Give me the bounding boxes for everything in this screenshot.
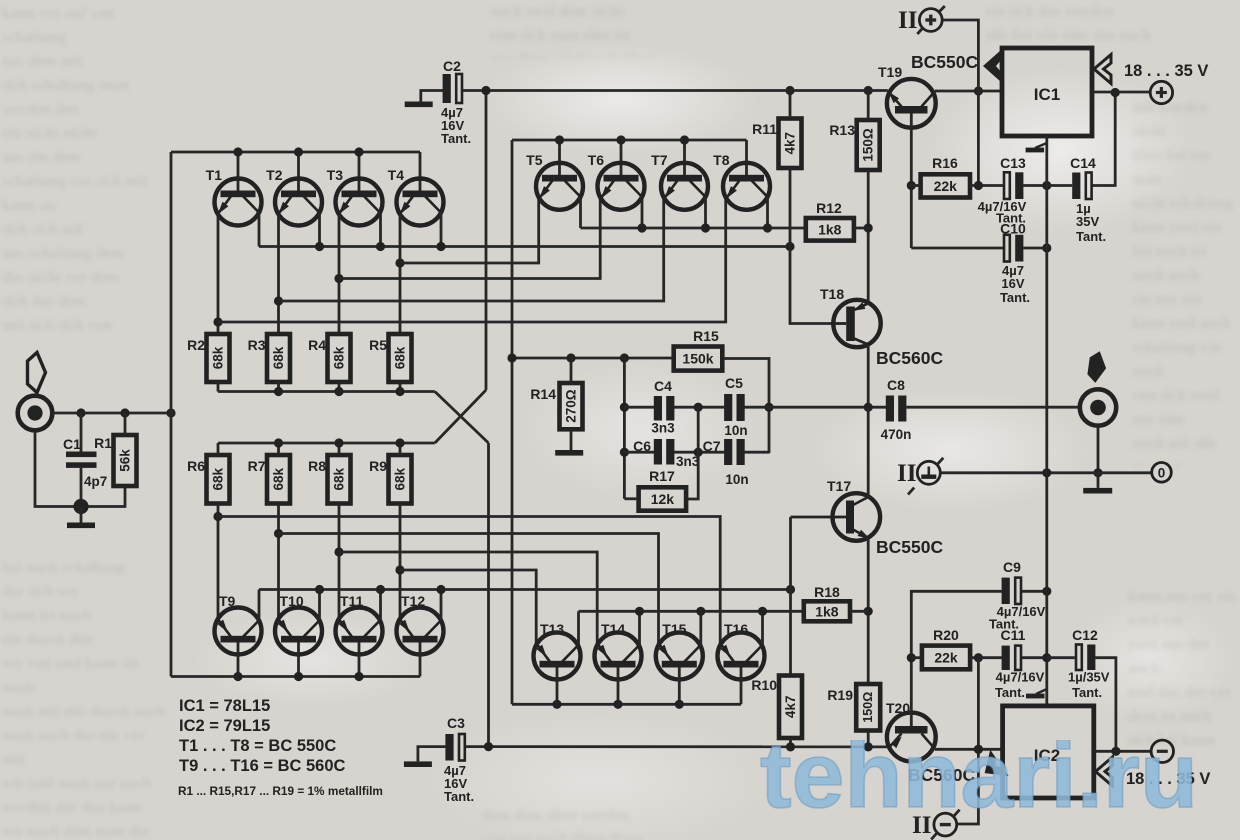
IC1 box bbox=[1002, 48, 1092, 136]
wire R20 right to C11 bbox=[970, 656, 1002, 659]
node tap T3 bbox=[334, 274, 343, 283]
node input ground bbox=[73, 499, 88, 514]
wire R9 top bbox=[399, 443, 402, 455]
svg-text:3n3: 3n3 bbox=[676, 454, 700, 469]
wire tap T11-T14 emitter bbox=[339, 552, 597, 645]
wire R2 bottom bbox=[217, 382, 220, 392]
wire tap T12-T13 emitter bbox=[400, 570, 536, 645]
capacitor C8 bbox=[886, 396, 894, 422]
node tap T1 bbox=[213, 317, 222, 326]
input RCA jack bbox=[18, 396, 53, 431]
wire tap T9-T16 emitter bbox=[218, 517, 720, 646]
ground IC2 bbox=[1036, 689, 1047, 694]
wire T7 collector bbox=[704, 197, 707, 228]
svg-text:R9: R9 bbox=[369, 458, 387, 474]
wire T5 collector bbox=[579, 197, 582, 228]
svg-text:Tant.: Tant. bbox=[1072, 685, 1102, 700]
wire tap T1-T8 emitter bbox=[218, 197, 726, 322]
wire T19 base column bbox=[910, 114, 913, 249]
node input/R1 bbox=[120, 408, 129, 417]
svg-text:35V: 35V bbox=[1076, 214, 1099, 229]
transistor T16 bbox=[718, 633, 765, 680]
wire T15 base stub bbox=[678, 668, 681, 705]
transistor T6 bbox=[598, 163, 645, 210]
wire T7 base stub bbox=[683, 140, 686, 176]
wire R6 bottom to T9 emitter bbox=[217, 504, 220, 619]
arrow IC2 output (filled) bbox=[975, 750, 1008, 787]
wire C4/C6 column bbox=[623, 358, 626, 499]
svg-text:C7: C7 bbox=[703, 438, 721, 454]
wire IC1 to + terminal bbox=[1092, 91, 1150, 94]
node +raw bbox=[1111, 88, 1120, 97]
svg-text:T17: T17 bbox=[827, 478, 851, 494]
svg-text:4p7: 4p7 bbox=[84, 474, 107, 489]
node C11/0V column bbox=[1042, 653, 1051, 662]
wire IC2 to - terminal bbox=[1094, 750, 1151, 753]
node R20/C11/II- bbox=[974, 653, 983, 662]
wire R11 top bbox=[789, 91, 792, 119]
svg-text:IC1 = 78L15: IC1 = 78L15 bbox=[179, 697, 270, 715]
svg-text:Tant.: Tant. bbox=[995, 685, 1025, 700]
svg-text:T18: T18 bbox=[820, 286, 844, 302]
wire T1-T4 collector bus to R11 bbox=[259, 245, 790, 248]
wire T16 collector bbox=[761, 611, 764, 645]
svg-text:II: II bbox=[897, 460, 916, 487]
svg-text:68k: 68k bbox=[332, 346, 347, 369]
svg-text:T13: T13 bbox=[540, 621, 564, 637]
wire jack shield to ground node bbox=[35, 431, 81, 507]
node rail/R13 bbox=[864, 86, 873, 95]
watermark tehnari.ru bbox=[758, 740, 1204, 820]
svg-text:R20: R20 bbox=[933, 627, 959, 643]
transistor T13 bbox=[534, 633, 581, 680]
wire T9-T12 collector bus to R10 column bbox=[259, 588, 791, 591]
svg-text:R15: R15 bbox=[693, 328, 719, 344]
wire T4 emitter to R5 bbox=[399, 214, 402, 334]
svg-text:T1 . . . T8 = BC 550C: T1 . . . T8 = BC 550C bbox=[179, 737, 336, 755]
svg-text:R18: R18 bbox=[814, 584, 840, 600]
wire R6 top bbox=[217, 443, 220, 455]
svg-text:BC560C: BC560C bbox=[876, 348, 943, 368]
node C4 column bbox=[620, 353, 629, 362]
svg-text:R10: R10 bbox=[751, 677, 777, 693]
node tap T2 bbox=[274, 296, 283, 305]
ground R14 bbox=[555, 450, 583, 456]
svg-text:tehnari.ru: tehnari.ru bbox=[760, 740, 1198, 820]
node C5/C7/R15/output bbox=[764, 403, 773, 412]
wire jack to 0 line bbox=[1097, 426, 1100, 473]
transistor T15 bbox=[656, 633, 703, 680]
resistor R18 bbox=[804, 584, 850, 621]
svg-text:C13: C13 bbox=[1000, 155, 1026, 171]
wire T4 collector bbox=[440, 213, 443, 247]
wire T9 base stub bbox=[237, 643, 240, 677]
transistor T9 bbox=[215, 608, 262, 655]
wire T3 base stub bbox=[358, 152, 361, 192]
wire T4 base stub bbox=[419, 152, 422, 192]
node R16/C13/II+ bbox=[974, 181, 983, 190]
wire T19 base to C10 bbox=[911, 247, 1003, 250]
wire 0 line bbox=[940, 471, 1151, 474]
svg-text:16V: 16V bbox=[1001, 276, 1024, 291]
wire base rail vertical bbox=[170, 152, 173, 677]
wire T13-T16 collector bus to R18 bbox=[579, 610, 804, 613]
svg-text:R19: R19 bbox=[827, 687, 853, 703]
wire T1-T4 base bus bbox=[171, 151, 420, 154]
svg-text:0: 0 bbox=[1158, 466, 1166, 481]
wire T2 emitter to R3 bbox=[277, 214, 280, 334]
svg-text:4k7: 4k7 bbox=[783, 132, 798, 155]
node T20c/II- bbox=[974, 745, 983, 754]
svg-text:T5: T5 bbox=[526, 152, 543, 168]
arrow IC2 input (hollow) bbox=[1096, 757, 1113, 786]
resistor R10 bbox=[751, 676, 802, 739]
wire T17 emitter down bbox=[867, 538, 870, 684]
wire tap T10-T15 emitter bbox=[279, 534, 659, 646]
resistor R12 bbox=[806, 200, 854, 241]
node R19/-rail bbox=[864, 742, 873, 751]
svg-text:1µ/35V: 1µ/35V bbox=[1068, 670, 1110, 685]
arrow IC1 output (filled) bbox=[983, 50, 1001, 82]
svg-text:68k: 68k bbox=[332, 467, 347, 490]
node C3 bbox=[484, 742, 493, 751]
wire cross diagonal lower-to-upper bbox=[435, 390, 486, 443]
wire R18 right bbox=[850, 610, 868, 613]
wire T17 collector up bbox=[867, 407, 870, 497]
svg-text:C6: C6 bbox=[633, 438, 651, 454]
svg-text:C5: C5 bbox=[725, 375, 743, 391]
svg-text:T8: T8 bbox=[713, 152, 730, 168]
wire T13 base stub bbox=[556, 668, 559, 705]
svg-text:R1: R1 bbox=[94, 435, 112, 451]
transistor T18 bbox=[833, 300, 880, 347]
svg-text:1k8: 1k8 bbox=[818, 221, 842, 237]
wire R2-R5 bottom bus bbox=[218, 390, 435, 393]
node tap T10 bbox=[274, 529, 283, 538]
svg-text:C1: C1 bbox=[63, 436, 81, 452]
svg-text:R12: R12 bbox=[816, 200, 842, 216]
capacitor C1 bbox=[80, 413, 83, 452]
svg-text:T14: T14 bbox=[601, 621, 625, 637]
node -raw bbox=[1111, 747, 1120, 756]
wire T5-T8 base bus bbox=[512, 139, 747, 142]
svg-text:C3: C3 bbox=[447, 715, 465, 731]
wire R6-R9 top bus bbox=[218, 442, 435, 445]
resistor R16 bbox=[921, 155, 970, 198]
wire T6 base stub bbox=[620, 140, 623, 176]
svg-text:4k7: 4k7 bbox=[783, 696, 798, 719]
node C4-C5/R17 bbox=[694, 403, 703, 412]
transistor T12 bbox=[397, 608, 444, 655]
svg-text:T2: T2 bbox=[266, 167, 283, 183]
svg-text:68k: 68k bbox=[271, 467, 286, 490]
node C6-C7/R17 bbox=[694, 448, 703, 457]
transistor T7 bbox=[661, 163, 708, 210]
wire T10 base stub bbox=[297, 643, 300, 677]
svg-text:18 . . . 35 V: 18 . . . 35 V bbox=[1124, 62, 1208, 80]
capacitor C9 bbox=[1002, 578, 1010, 604]
wire R7 top bbox=[277, 443, 280, 455]
node R10/-rail bbox=[786, 742, 795, 751]
transistor T10 bbox=[275, 608, 322, 655]
resistor R5 bbox=[369, 334, 411, 382]
svg-text:C9: C9 bbox=[1003, 559, 1021, 575]
svg-text:Tant.: Tant. bbox=[441, 131, 471, 146]
wire R14 bottom bbox=[570, 429, 573, 450]
resistor R17 bbox=[639, 468, 687, 511]
svg-text:BC550C: BC550C bbox=[876, 537, 943, 557]
svg-text:R6: R6 bbox=[187, 458, 205, 474]
wire T1 collector bbox=[258, 213, 261, 247]
wire T14 base stub bbox=[617, 668, 620, 705]
node input/C1 bbox=[76, 408, 85, 417]
svg-text:T9 . . . T16 = BC 560C: T9 . . . T16 = BC 560C bbox=[179, 757, 346, 775]
wire T2 collector bbox=[318, 213, 321, 247]
svg-text:Tant.: Tant. bbox=[444, 789, 474, 804]
wire R3 bottom bbox=[277, 382, 280, 392]
wire R5 bottom bbox=[399, 382, 402, 392]
svg-text:22k: 22k bbox=[934, 650, 958, 666]
IC2 box bbox=[1003, 706, 1094, 798]
transistor T17 bbox=[791, 493, 881, 541]
node C2 bbox=[481, 86, 490, 95]
node 0V column bbox=[1042, 468, 1051, 477]
node tap T4 bbox=[395, 258, 404, 267]
svg-text:T1: T1 bbox=[206, 167, 223, 183]
svg-text:T12: T12 bbox=[401, 593, 425, 609]
node feedback vertical bbox=[507, 353, 516, 362]
svg-text:R16: R16 bbox=[932, 155, 958, 171]
svg-text:4µ7/16V: 4µ7/16V bbox=[996, 670, 1045, 685]
node R14 bbox=[566, 353, 575, 362]
svg-text:T10: T10 bbox=[280, 593, 304, 609]
resistor R9 bbox=[369, 455, 411, 504]
arrow IC1 input (hollow) bbox=[1094, 55, 1111, 84]
wire R4 bottom bbox=[338, 382, 341, 392]
capacitor C5 bbox=[724, 394, 732, 421]
svg-text:10n: 10n bbox=[725, 472, 748, 487]
svg-text:270Ω: 270Ω bbox=[564, 389, 579, 423]
svg-text:68k: 68k bbox=[393, 346, 408, 369]
node output gnd bbox=[1093, 468, 1102, 477]
node T19 base/R16 bbox=[907, 181, 916, 190]
node collector bus / R11 bbox=[785, 242, 794, 251]
wire T20 collector to IC2 bbox=[935, 748, 1003, 751]
svg-text:3n3: 3n3 bbox=[651, 421, 675, 436]
svg-text:T3: T3 bbox=[327, 167, 344, 183]
svg-text:T16: T16 bbox=[724, 621, 748, 637]
wire II+ to R16 right node bbox=[942, 20, 978, 186]
svg-text:C4: C4 bbox=[654, 378, 672, 394]
resistor R3 bbox=[248, 334, 290, 382]
terminal - 18-35V bbox=[1151, 740, 1173, 762]
node T17/T18 collectors bbox=[864, 403, 873, 412]
resistor R11 bbox=[752, 119, 801, 169]
wire R9 bottom to T12 emitter bbox=[399, 504, 402, 619]
wire R8 bottom to T11 emitter bbox=[338, 504, 341, 619]
transistor T20 bbox=[887, 713, 936, 762]
wire T13-T16 base bus bbox=[512, 703, 741, 706]
wire tap T3-T6 emitter bbox=[339, 197, 600, 279]
wire R1 bottom to ground node bbox=[81, 486, 125, 507]
capacitor C3 bbox=[418, 747, 446, 762]
svg-text:T9: T9 bbox=[219, 593, 236, 609]
output RCA jack bbox=[1080, 389, 1116, 425]
wire R17 right leg bbox=[686, 407, 698, 499]
svg-text:22k: 22k bbox=[934, 178, 958, 194]
wire C8 to output jack bbox=[907, 406, 1080, 409]
wire T20 base to C9 bbox=[911, 591, 1002, 726]
node T19c/II+/R16 bbox=[974, 86, 983, 95]
wire T9 collector bbox=[258, 590, 261, 621]
capacitor C6 bbox=[624, 451, 654, 454]
wire T2 base stub bbox=[297, 152, 300, 192]
wire -rail bbox=[466, 745, 888, 748]
resistor R2 bbox=[187, 334, 229, 382]
svg-text:II: II bbox=[898, 7, 917, 34]
svg-text:68k: 68k bbox=[271, 346, 286, 369]
wire R16 right to C13 bbox=[970, 184, 1003, 187]
svg-text:IC2 = 79L15: IC2 = 79L15 bbox=[179, 717, 270, 735]
svg-text:T6: T6 bbox=[588, 152, 605, 168]
wire T17 base / R10 column bbox=[789, 517, 792, 676]
capacitor C12 bbox=[1047, 656, 1075, 659]
wire R19 bottom bbox=[867, 731, 870, 748]
svg-text:R4: R4 bbox=[308, 337, 326, 353]
svg-text:T20: T20 bbox=[886, 700, 910, 716]
svg-text:R7: R7 bbox=[248, 458, 266, 474]
resistor R4 bbox=[308, 334, 350, 382]
node T20 base/R20 bbox=[907, 653, 916, 662]
transistor T4 bbox=[397, 179, 444, 226]
svg-text:R8: R8 bbox=[308, 458, 326, 474]
wire tap T4-T5 emitter bbox=[400, 197, 539, 263]
wire T6 collector bbox=[641, 197, 644, 228]
ground input bbox=[80, 507, 83, 524]
wire output node bbox=[769, 406, 886, 409]
transistor T1 bbox=[215, 179, 262, 226]
svg-text:R13: R13 bbox=[829, 122, 855, 138]
svg-text:C11: C11 bbox=[1001, 627, 1026, 643]
svg-text:R11: R11 bbox=[752, 121, 777, 137]
resistor R19 bbox=[827, 684, 880, 731]
wire T5-T8 collector bus to R12 bbox=[581, 227, 806, 230]
wire 0V column bbox=[1045, 136, 1048, 706]
wire R1 top lead bbox=[124, 413, 127, 435]
svg-text:68k: 68k bbox=[393, 467, 408, 490]
wire C12 to -input bbox=[1095, 658, 1116, 752]
wire feedback node vertical bbox=[511, 140, 514, 704]
node tap T11 bbox=[334, 547, 343, 556]
wire T8 collector bbox=[766, 197, 769, 228]
node tap T12 bbox=[395, 565, 404, 574]
wire T11 base stub bbox=[358, 643, 361, 677]
input arrow symbol bbox=[28, 353, 46, 393]
wire T14 collector bbox=[638, 611, 641, 645]
svg-text:IC1: IC1 bbox=[1034, 85, 1060, 104]
resistor R20 bbox=[922, 627, 970, 669]
wire input node bbox=[52, 412, 171, 415]
node R12/R13/T18e bbox=[864, 223, 873, 232]
node C9/0V column bbox=[1042, 587, 1051, 596]
svg-text:R2: R2 bbox=[187, 337, 205, 353]
svg-text:470n: 470n bbox=[881, 427, 912, 442]
wire R20 left bbox=[911, 656, 922, 659]
svg-text:68k: 68k bbox=[211, 346, 226, 369]
wire T16 base stub bbox=[740, 668, 743, 705]
transistor T11 bbox=[336, 608, 383, 655]
svg-text:Tant.: Tant. bbox=[1076, 229, 1106, 244]
wire T1 emitter to R2 bbox=[217, 214, 220, 334]
svg-text:68k: 68k bbox=[211, 467, 226, 490]
terminal 0 bbox=[1152, 463, 1172, 483]
wire R7 bottom to T10 emitter bbox=[277, 504, 280, 619]
output arrow (filled) bbox=[1086, 350, 1108, 384]
capacitor C7 bbox=[724, 439, 732, 465]
svg-text:T15: T15 bbox=[662, 621, 686, 637]
wire T12 base stub bbox=[419, 643, 422, 677]
svg-text:12k: 12k bbox=[651, 491, 675, 507]
node rail/R11 bbox=[785, 86, 794, 95]
wire T18 collector down bbox=[867, 345, 870, 408]
svg-text:R3: R3 bbox=[248, 337, 266, 353]
capacitor C13 bbox=[1004, 172, 1010, 199]
wire to II- terminal bbox=[957, 658, 979, 824]
svg-text:T7: T7 bbox=[651, 152, 668, 168]
svg-text:R5: R5 bbox=[369, 337, 387, 353]
node input/base rail bbox=[166, 408, 175, 417]
svg-text:R1 ... R15,R17 ... R19 = 1% me: R1 ... R15,R17 ... R19 = 1% metallfilm bbox=[178, 784, 383, 798]
wire T3 collector bbox=[379, 213, 382, 247]
ground IC1 bbox=[1035, 143, 1047, 148]
node R18/T17e bbox=[864, 607, 873, 616]
wire R8 top bbox=[338, 443, 341, 455]
wire +rail from C2 node to T19 bbox=[486, 89, 888, 92]
resistor R6 bbox=[187, 455, 229, 504]
svg-text:10n: 10n bbox=[724, 423, 747, 438]
wire R15 right to C5/C7 node bbox=[722, 359, 769, 454]
wire T19 collector to IC1 bbox=[935, 90, 1002, 93]
capacitor C14 bbox=[1047, 184, 1072, 187]
wire T8 base stub bbox=[745, 140, 748, 176]
ground output bbox=[1097, 473, 1100, 488]
transistor T14 bbox=[595, 633, 642, 680]
wire C2 node vertical bbox=[485, 90, 488, 390]
node tap T9 bbox=[213, 512, 222, 521]
wire R10 bottom bbox=[789, 738, 792, 747]
wire R13 bottom to T18 emitter bbox=[867, 170, 870, 303]
node C10/0V column bbox=[1042, 243, 1051, 252]
svg-text:C8: C8 bbox=[887, 377, 905, 393]
svg-text:C2: C2 bbox=[443, 58, 461, 74]
svg-text:BC550C: BC550C bbox=[911, 52, 978, 72]
wire T9-T12 base bus bbox=[171, 675, 420, 678]
wire T11 collector bbox=[379, 590, 382, 621]
svg-text:Tant.: Tant. bbox=[1000, 290, 1030, 305]
wire T10 collector bbox=[318, 590, 321, 621]
svg-text:C10: C10 bbox=[1000, 221, 1026, 237]
transistor T3 bbox=[336, 179, 383, 226]
terminal + 18-35V bbox=[1150, 81, 1172, 103]
resistor R1 bbox=[94, 435, 136, 486]
resistor R14 bbox=[530, 383, 582, 429]
svg-text:R17: R17 bbox=[649, 468, 675, 484]
svg-text:56k: 56k bbox=[118, 449, 133, 472]
wire T5 base stub bbox=[558, 140, 561, 176]
transistor T2 bbox=[275, 179, 322, 226]
wire T1 base stub bbox=[237, 152, 240, 192]
wire R11 bottom to T18 base bbox=[790, 168, 834, 324]
